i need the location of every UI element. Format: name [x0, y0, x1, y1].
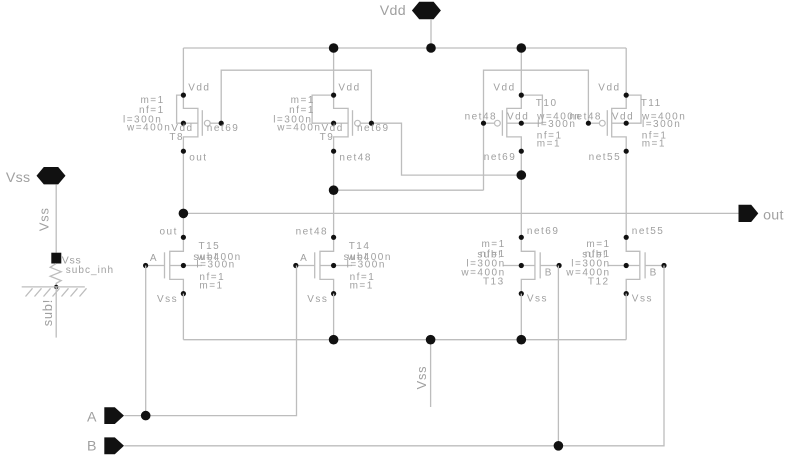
wire net69 column (T10 drain to T13 drain): [520, 151, 522, 237]
svg-text:net48: net48: [569, 112, 602, 123]
junction dot T9/Vdd rail: [329, 43, 339, 53]
transistor T15 (NMOS): [143, 226, 242, 305]
svg-text:T9: T9: [320, 132, 335, 143]
wire net48 route from T9 drain: [334, 189, 484, 191]
wire Vss riser T12: [625, 294, 627, 340]
wire Vdd riser to T11: [625, 48, 627, 95]
svg-text:Vss: Vss: [527, 294, 548, 305]
svg-text:Vss: Vss: [157, 294, 178, 305]
wire Vss rail: [183, 339, 626, 341]
svg-text:net69: net69: [207, 123, 240, 134]
svg-text:T13: T13: [483, 277, 505, 288]
wire Vss riser T14: [333, 294, 335, 340]
svg-text:net55: net55: [632, 226, 665, 237]
svg-text:Vdd: Vdd: [380, 3, 406, 19]
svg-text:Vdd: Vdd: [598, 83, 620, 94]
power symbol Vdd: [380, 2, 441, 19]
svg-text:out: out: [159, 226, 177, 237]
junction dot Vss stub: [426, 335, 436, 345]
svg-text:w=400n: w=400n: [276, 122, 321, 133]
svg-text:Vss: Vss: [307, 294, 328, 305]
svg-text:A: A: [300, 253, 308, 264]
svg-text:Vdd: Vdd: [188, 83, 210, 94]
svg-text:B: B: [545, 268, 553, 279]
svg-text:out: out: [763, 207, 784, 223]
svg-text:net48: net48: [296, 226, 329, 237]
junction dot Vdd stem/rail: [426, 43, 436, 53]
junction dot A rail: [141, 411, 151, 421]
svg-text:m=1: m=1: [642, 138, 666, 149]
svg-text:T15: T15: [199, 241, 221, 252]
svg-text:l=300n: l=300n: [196, 260, 235, 271]
wire Vdd stem: [430, 19, 432, 48]
wire Vdd top rail: [183, 47, 626, 49]
wire input A rail: [124, 266, 296, 416]
wire Vdd riser to T9: [333, 48, 335, 95]
junction dot net69 column: [517, 170, 527, 180]
svg-text:l=300n: l=300n: [347, 260, 386, 271]
svg-text:m=1: m=1: [199, 281, 223, 292]
svg-text:w=400n: w=400n: [126, 122, 171, 133]
power symbol Vss: [6, 167, 66, 186]
svg-text:Vdd: Vdd: [338, 83, 360, 94]
resistor subc_inh (zigzag): [50, 264, 114, 287]
wire net69 route T9 gate to T10 drain: [371, 123, 521, 175]
wire Vdd riser to T8: [182, 48, 184, 95]
wire B riser to T13 gate: [557, 266, 559, 446]
svg-text:T14: T14: [349, 241, 371, 252]
svg-text:T11: T11: [641, 98, 662, 109]
transistor T12 (NMOS): [565, 226, 666, 304]
wire net69 rail: [221, 70, 371, 123]
junction dot B rail: [554, 441, 564, 451]
junction dot net48 column: [329, 185, 339, 195]
svg-text:sub!: sub!: [40, 299, 55, 326]
svg-text:out: out: [189, 153, 207, 164]
junction dot T14/Vss rail: [329, 335, 339, 345]
svg-text:Vss: Vss: [6, 170, 31, 186]
svg-text:T8: T8: [169, 132, 184, 143]
svg-text:net55: net55: [589, 152, 622, 163]
svg-text:m=1: m=1: [537, 138, 561, 149]
pin A: [87, 407, 124, 425]
wire out column (T8 drain to T15 drain): [182, 151, 184, 237]
pin out: [739, 205, 784, 224]
svg-text:net69: net69: [357, 123, 390, 134]
substrate contact square: [51, 253, 61, 264]
svg-text:A: A: [87, 410, 97, 426]
wire Vdd riser to T10: [520, 48, 522, 95]
junction dot T13/Vss rail: [517, 335, 527, 345]
svg-text:T10: T10: [536, 98, 558, 109]
transistor T10 (PMOS): [465, 83, 582, 164]
wire Vss riser T13: [520, 294, 522, 340]
ground sub! (hatched): [22, 287, 87, 297]
junction dot T10/Vdd rail: [517, 43, 527, 53]
transistor T11 (PMOS): [569, 83, 686, 164]
wire input B rail: [124, 266, 664, 446]
node Vss stub: [414, 340, 431, 407]
junction dot at ground: [54, 285, 58, 289]
svg-text:Vdd: Vdd: [612, 112, 634, 123]
svg-text:Vdd: Vdd: [493, 83, 515, 94]
svg-text:net69: net69: [484, 152, 517, 163]
pin B: [87, 437, 124, 454]
wire net48 rail: [484, 70, 589, 190]
svg-text:net48: net48: [339, 153, 372, 164]
svg-text:T12: T12: [588, 277, 610, 288]
wire net48 column (T9 drain to T14 drain): [333, 151, 335, 237]
wire out rail: [183, 212, 738, 214]
svg-text:subc_inh: subc_inh: [66, 265, 114, 276]
svg-text:B: B: [650, 268, 658, 279]
svg-text:Vss: Vss: [37, 207, 52, 231]
svg-text:Vss: Vss: [632, 294, 653, 305]
transistor T13 (NMOS): [460, 226, 561, 304]
transistor T9 (PMOS): [273, 83, 389, 164]
wire Vss stem: [55, 184, 57, 252]
svg-text:A: A: [150, 253, 158, 264]
transistor T14 (NMOS): [293, 226, 392, 305]
svg-text:Vdd: Vdd: [507, 112, 529, 123]
svg-text:l=300n: l=300n: [642, 119, 681, 130]
svg-text:net48: net48: [465, 112, 498, 123]
junction dot out rail: [179, 209, 189, 219]
wire net55 column (T11 drain to T12 drain): [625, 151, 627, 237]
wire Vss riser T15: [182, 294, 184, 340]
wire sub! tail: [55, 287, 57, 338]
svg-text:net69: net69: [527, 226, 560, 237]
wire A riser to T15 gate: [145, 266, 147, 416]
transistor T8 (PMOS): [123, 83, 239, 164]
svg-text:B: B: [87, 439, 97, 455]
svg-text:m=1: m=1: [350, 281, 374, 292]
svg-text:Vss: Vss: [414, 366, 429, 390]
